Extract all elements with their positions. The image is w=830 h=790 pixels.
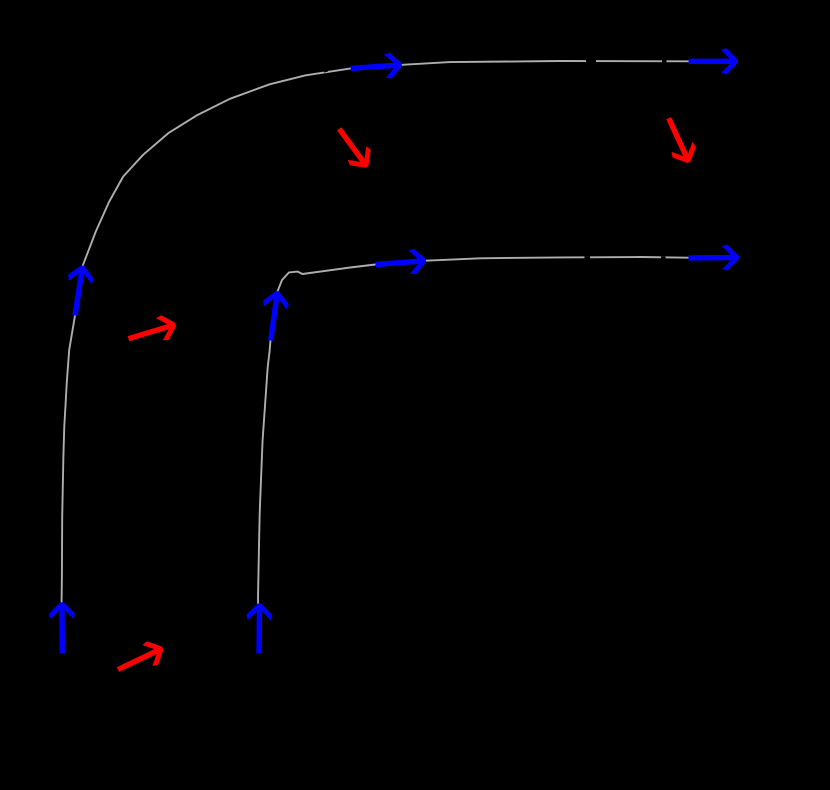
velocity arrow v1 (outer trajectory, bottom): [49, 602, 75, 653]
acceleration arrow a4 (bottom left, pointing up-right): [117, 641, 164, 672]
gap in inner trajectory near x=663: [661, 256, 666, 259]
inner particle trajectory (gray path: up near x=260, sharp bend, then right along y=258): [258, 257, 739, 654]
velocity arrow v6 (inner trajectory, left bend): [263, 291, 289, 341]
velocity arrow v4 (outer trajectory, top right end): [689, 48, 738, 74]
velocity arrow v8 (inner trajectory, top right end): [689, 245, 739, 271]
acceleration arrow a1 (top middle, pointing down-right): [337, 127, 371, 168]
velocity arrow v7 (inner trajectory, top middle): [375, 249, 426, 275]
outer particle trajectory (gray path: up the left side, bend, then right along the top): [62, 61, 738, 654]
gap in inner trajectory near x=587: [585, 256, 591, 259]
acceleration arrow a2 (top right, pointing down-right): [666, 117, 696, 163]
velocity arrow v5 (inner trajectory, bottom): [246, 604, 272, 654]
gap in outer trajectory near x=590: [586, 59, 596, 62]
acceleration arrow a3 (mid left, pointing up-right): [128, 315, 177, 341]
gap in outer trajectory near x=326: [324, 69, 328, 73]
velocity arrow v3 (outer trajectory, top middle): [351, 53, 402, 79]
gap in outer trajectory near x=240: [239, 89, 245, 92]
gap in outer trajectory near x=664: [662, 60, 667, 63]
velocity arrow v2 (outer trajectory, left bend): [68, 265, 94, 316]
